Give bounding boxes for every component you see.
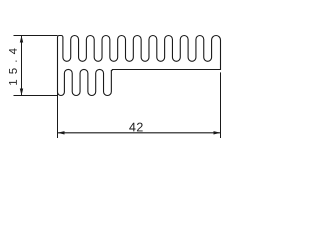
label 42 [129, 123, 142, 132]
label 15.4 [9, 48, 17, 84]
arrow left [58, 131, 65, 134]
dimension line 15.4 [21, 36, 23, 96]
heatsink profile outline [58, 35, 221, 95]
arrow up [20, 36, 23, 43]
extension line bottom (15.4) [14, 95, 58, 97]
arrow down [20, 89, 23, 96]
arrow right [214, 131, 221, 134]
extension line right (42) [220, 72, 222, 138]
dimension line 42 [58, 132, 221, 134]
extension line top (15.4) [14, 35, 58, 37]
extension line left (42) [57, 93, 59, 139]
